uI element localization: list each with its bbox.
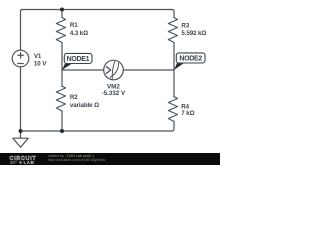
node NODE1 label box: [64, 53, 92, 63]
wire R1 bottom lead to node A: [61, 43, 63, 71]
svg-text:R2: R2: [70, 94, 78, 101]
wire R2 bottom lead: [61, 111, 63, 131]
node NODE2 label box: [176, 53, 205, 63]
resistor R1: [56, 18, 65, 43]
resistor R4: [168, 97, 177, 122]
ground: [13, 138, 28, 147]
svg-text:http://circuitlab.com/cm367d8y: http://circuitlab.com/cm367d8ye5dw: [48, 158, 106, 162]
svg-text:10 V: 10 V: [34, 60, 47, 67]
svg-text:NODE2: NODE2: [179, 56, 202, 63]
wire voltmeter to node B: [123, 69, 174, 71]
footer CircuitLab logo: [10, 156, 37, 165]
svg-text:LAB: LAB: [24, 160, 35, 165]
wire mid-column top stub: [61, 10, 63, 18]
wire node A to voltmeter: [62, 69, 104, 71]
wire R3 bottom lead to node B: [173, 43, 175, 71]
junction dot bottom left: [19, 129, 23, 133]
wire V1 bottom lead: [20, 67, 22, 131]
voltmeter VM2: [104, 60, 124, 80]
junction dot bottom mid: [60, 129, 64, 133]
svg-text:NODE1: NODE1: [67, 56, 90, 63]
wire node A to R2: [61, 70, 63, 87]
ground stem: [20, 131, 22, 138]
svg-text:R3: R3: [181, 22, 189, 29]
svg-text:5.592 kΩ: 5.592 kΩ: [181, 30, 206, 37]
wire node B to R4: [173, 70, 175, 97]
svg-text:-5.332 V: -5.332 V: [102, 90, 126, 97]
resistor R2: [56, 86, 65, 111]
resistor R3: [168, 18, 177, 43]
svg-text:variable Ω: variable Ω: [70, 102, 99, 109]
footer credit text: [48, 154, 106, 162]
node NODE2 flag pointer: [174, 63, 184, 70]
junction dot top mid: [60, 8, 64, 12]
footer bar: [0, 153, 220, 165]
svg-text:V1: V1: [34, 53, 42, 60]
svg-text:4.3 kΩ: 4.3 kΩ: [70, 30, 88, 37]
voltage source V1: [12, 50, 29, 67]
node NODE1 flag pointer: [62, 64, 72, 71]
wire bottom rail: [21, 122, 175, 132]
svg-text:R1: R1: [70, 22, 78, 29]
svg-text:7 kΩ: 7 kΩ: [181, 110, 194, 117]
wire top rail: [21, 10, 175, 51]
